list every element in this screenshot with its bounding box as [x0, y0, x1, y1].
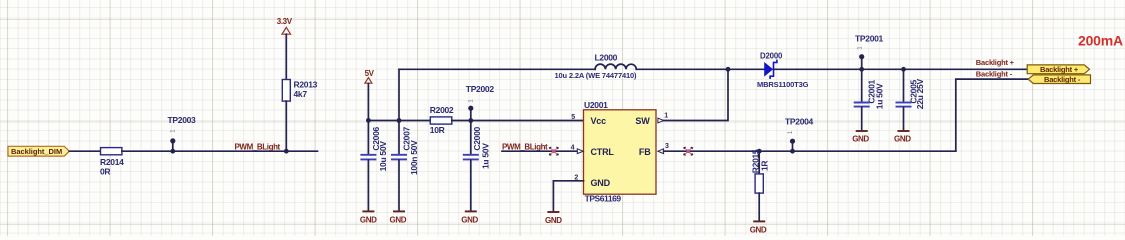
svg-text:TP2001: TP2001: [855, 33, 884, 43]
riser wire to top rail: [398, 69, 400, 120]
svg-text:GND: GND: [591, 178, 611, 188]
diode D2000: [757, 52, 809, 90]
svg-text:GND: GND: [360, 215, 377, 224]
svg-text:10u 2.2A (WE 74477410): 10u 2.2A (WE 74477410): [555, 71, 638, 80]
junction TP2004: [790, 149, 795, 154]
svg-text:1: 1: [171, 129, 177, 133]
svg-text:Backlight -: Backlight -: [976, 69, 1013, 78]
svg-text:200mA: 200mA: [1078, 32, 1123, 48]
ground R2015: [750, 221, 767, 234]
ground C2006: [360, 211, 377, 224]
junction R2013/PWM: [284, 149, 289, 154]
svg-text:GND: GND: [545, 216, 562, 225]
svg-text:5V: 5V: [365, 69, 375, 78]
junction C2000/TP2002: [468, 118, 473, 123]
no-ERC marker CTRL: [550, 147, 559, 155]
testpoint TP2004: [785, 117, 814, 152]
svg-text:GND: GND: [750, 225, 767, 234]
svg-text:Vcc: Vcc: [591, 116, 607, 126]
wire R2013 down: [285, 101, 287, 151]
svg-text:GND: GND: [461, 215, 478, 224]
ground C2007: [390, 211, 407, 224]
svg-text:4: 4: [571, 144, 575, 151]
capacitor C2006: [360, 121, 388, 211]
wire FB riser to Backlight-: [956, 79, 1028, 151]
junction TP2003: [170, 149, 175, 154]
junction R2015: [757, 149, 762, 154]
top rail left segment: [399, 68, 595, 70]
resistor R2002: [430, 105, 454, 135]
wire port to R2014: [69, 150, 100, 152]
svg-text:CTRL: CTRL: [591, 147, 615, 157]
svg-text:TPS61169: TPS61169: [585, 194, 622, 204]
svg-text:1: 1: [664, 112, 668, 119]
svg-text:TP2002: TP2002: [466, 84, 495, 94]
wire SW to riser: [664, 69, 728, 120]
op IC U2001 body: [584, 100, 657, 204]
svg-text:GND: GND: [852, 134, 869, 143]
port Backlight_DIM: [8, 146, 69, 156]
top rail right segment: [774, 68, 1028, 70]
svg-text:Backlight +: Backlight +: [976, 58, 1015, 67]
top rail mid segment: [636, 68, 764, 70]
capacitor C2005: [896, 69, 926, 130]
ground C2000: [461, 211, 478, 224]
svg-text:10R: 10R: [430, 125, 445, 135]
svg-text:22u 25V: 22u 25V: [915, 79, 925, 110]
svg-text:R2013: R2013: [294, 80, 318, 90]
wire pin2 GND: [553, 181, 583, 211]
pin 1 output arrow: [658, 118, 664, 123]
junction 5V/C2006: [366, 118, 371, 123]
no-ERC marker FB: [684, 147, 693, 155]
capacitor C2001: [854, 69, 885, 130]
capacitor C2000: [463, 121, 491, 211]
wire CTRL: [502, 150, 578, 152]
power 3.3V: [277, 17, 293, 80]
ground C2005: [894, 131, 911, 143]
svg-text:100n 50V: 100n 50V: [409, 140, 419, 175]
svg-text:R2002: R2002: [430, 105, 454, 115]
svg-text:5: 5: [571, 114, 575, 121]
svg-text:SW: SW: [635, 116, 650, 126]
ground C2001: [852, 131, 869, 143]
svg-text:1: 1: [788, 130, 794, 134]
svg-text:PWM_BLight: PWM_BLight: [235, 142, 281, 151]
junction C2005: [901, 67, 906, 72]
port Backlight -: [1028, 75, 1090, 84]
svg-text:Backlight_DIM: Backlight_DIM: [11, 147, 62, 156]
pin 4 input arrow: [577, 149, 583, 154]
svg-text:GND: GND: [390, 215, 407, 224]
power 5V: [365, 69, 375, 121]
resistor R2013: [282, 80, 317, 102]
junction C2001: [859, 67, 864, 72]
svg-text:4k7: 4k7: [294, 89, 308, 99]
svg-text:1u 50V: 1u 50V: [874, 83, 884, 109]
resistor R2014: [100, 148, 124, 177]
svg-text:FB: FB: [639, 147, 651, 157]
pin 3 input arrow: [658, 149, 664, 154]
svg-text:U2001: U2001: [584, 100, 608, 110]
resistor R2015: [750, 149, 769, 220]
inductor L2000: [555, 53, 638, 81]
svg-text:Backlight +: Backlight +: [1040, 65, 1079, 74]
svg-text:0R: 0R: [100, 167, 110, 177]
ground U2001: [545, 212, 562, 225]
svg-text:D2000: D2000: [760, 52, 783, 61]
svg-text:1R: 1R: [759, 161, 769, 171]
capacitor C2007: [391, 121, 419, 211]
testpoint TP2001: [855, 33, 884, 69]
svg-text:MBRS1100T3G: MBRS1100T3G: [757, 80, 809, 89]
svg-text:10u 50V: 10u 50V: [378, 141, 388, 172]
bus wire 5V to R2002: [368, 120, 430, 122]
svg-text:3.3V: 3.3V: [277, 17, 293, 26]
svg-text:1: 1: [857, 46, 863, 50]
wire R2014 to net end: [122, 150, 318, 152]
svg-text:3: 3: [665, 143, 669, 150]
wire FB row: [664, 150, 956, 152]
svg-text:1u 50V: 1u 50V: [481, 143, 491, 169]
bus wire R2002 to Vcc pin5: [452, 120, 584, 122]
svg-text:1: 1: [468, 99, 474, 103]
svg-text:L2000: L2000: [595, 53, 618, 63]
junction SW/top rail: [726, 67, 731, 72]
svg-text:R2014: R2014: [100, 157, 124, 167]
junction C2007 riser: [397, 118, 402, 123]
svg-text:PWM_BLight: PWM_BLight: [502, 142, 548, 151]
svg-text:Backlight -: Backlight -: [1044, 75, 1081, 84]
testpoint TP2002: [466, 84, 495, 121]
svg-text:TP2003: TP2003: [168, 115, 197, 125]
svg-text:GND: GND: [894, 134, 911, 143]
testpoint TP2003: [168, 115, 197, 151]
port Backlight +: [1027, 65, 1089, 74]
svg-text:TP2004: TP2004: [785, 117, 814, 127]
